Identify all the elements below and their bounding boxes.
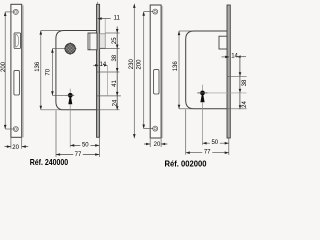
svg-text:38: 38 bbox=[112, 54, 118, 61]
right dim column anchor y48.6 bbox=[100, 48, 120, 50]
keyhole axis line bbox=[69, 89, 71, 148]
deadbolt cutout on faceplate (left plate) bbox=[14, 70, 20, 95]
dim 136 line (left) bbox=[40, 31, 42, 110]
body top extension to 136 dim bbox=[41, 30, 63, 32]
keyhole extension line (70 dim bottom) bbox=[52, 94, 66, 96]
right dim column anchor y72 bbox=[97, 71, 119, 73]
svg-text:11: 11 bbox=[114, 16, 121, 22]
svg-text:200: 200 bbox=[1, 61, 7, 72]
follower hub (handle spindle) bbox=[65, 43, 75, 53]
svg-text:50: 50 bbox=[82, 142, 89, 148]
forend side strip (left lock) bbox=[97, 4, 100, 137]
keyhole crosshair bbox=[67, 94, 75, 96]
body left lower extension (right 77) bbox=[185, 110, 187, 155]
dim 14 (bolt throw, right lock) bbox=[222, 56, 229, 58]
deadbolt box in case (right lock) bbox=[219, 36, 227, 49]
right dim column anchor y95.9 bbox=[97, 95, 121, 97]
top fixing screw (left plate) bbox=[13, 9, 18, 14]
svg-text:Réf. 240000: Réf. 240000 bbox=[30, 158, 69, 167]
faceplate front view (right lock) bbox=[150, 5, 161, 138]
follower hub extension line bbox=[52, 48, 65, 50]
svg-text:20: 20 bbox=[12, 145, 19, 151]
keyhole (left lock) bbox=[68, 93, 73, 98]
keyhole crosshair (right) bbox=[197, 92, 207, 94]
dim 20 (plate width, right lock) bbox=[150, 139, 161, 147]
svg-text:41: 41 bbox=[112, 80, 118, 87]
keyhole axis line (right) bbox=[202, 85, 204, 145]
dim 50 (backset, left lock) bbox=[70, 144, 99, 146]
dim 70 line (left) bbox=[51, 49, 53, 96]
forend lower extension (right 50/77) bbox=[228, 139, 230, 156]
latch bolt face inside cutout bbox=[15, 34, 17, 47]
dim 20 (plate width, left lock) bbox=[11, 138, 22, 149]
dim 200 extension bottom (left) bbox=[5, 128, 13, 130]
lock body outline (left lock) bbox=[56, 31, 97, 110]
svg-text:24: 24 bbox=[242, 101, 247, 108]
right dim column line (right lock) bbox=[239, 57, 241, 110]
dim 200 line (left) bbox=[4, 12, 6, 129]
dim 136 line (right) bbox=[178, 31, 180, 109]
svg-text:20: 20 bbox=[154, 142, 161, 148]
right dim column anchor y109.8 bbox=[97, 109, 120, 111]
latch cutout on faceplate (left plate) bbox=[14, 33, 20, 49]
latch tip extension line bbox=[104, 19, 106, 34]
dim 200 line (right) bbox=[143, 12, 145, 129]
svg-text:77: 77 bbox=[204, 149, 211, 155]
svg-text:Réf. 002000: Réf. 002000 bbox=[165, 160, 207, 169]
svg-text:200: 200 bbox=[137, 59, 143, 70]
body left lower extension (77 dim left side) bbox=[55, 111, 57, 158]
svg-text:25: 25 bbox=[112, 37, 118, 44]
dim 77 (case depth, left lock) bbox=[56, 154, 99, 156]
body bottom extension to 136 dim bbox=[41, 109, 63, 111]
dim 230 line (right) bbox=[133, 4, 135, 138]
latch tip protruding through forend bbox=[100, 34, 106, 48]
svg-text:136: 136 bbox=[35, 61, 41, 72]
svg-text:24: 24 bbox=[112, 99, 118, 106]
dim 77 (right lock) bbox=[186, 152, 229, 154]
body bottom extension to 136 dim (right) bbox=[179, 108, 192, 110]
dim 200 extension top (left) bbox=[5, 11, 13, 13]
bottom fixing screw (left plate) bbox=[13, 127, 18, 132]
anchor keyhole level (right lock) bbox=[208, 92, 247, 94]
lock body outline (right lock) bbox=[186, 31, 227, 109]
right dim column line bbox=[116, 27, 118, 110]
top fixing screw (right plate) bbox=[153, 9, 158, 14]
body top extension to 136 dim (right) bbox=[179, 30, 192, 32]
forend lower extension (50/77 dim right side) bbox=[98, 138, 100, 157]
deadbolt cutout (right plate) bbox=[154, 70, 159, 94]
faceplate front view (left lock) bbox=[11, 4, 22, 137]
dim 50 (right lock) bbox=[203, 142, 229, 144]
forend side strip (right lock) bbox=[227, 5, 230, 138]
anchor body bottom ext (right lock) bbox=[227, 108, 247, 110]
right dim column anchor y33 bbox=[105, 32, 119, 34]
keyhole (right lock) bbox=[200, 91, 205, 96]
forend back extension above plate bbox=[96, 2, 98, 5]
anchor y76.3 (right lock) bbox=[227, 75, 247, 77]
svg-text:70: 70 bbox=[46, 68, 52, 75]
deadbolt thrown extension bbox=[107, 65, 109, 96]
svg-text:136: 136 bbox=[173, 61, 179, 72]
latch bolt box in case (left lock) bbox=[88, 33, 97, 50]
faceplate shadow (right lock) bbox=[161, 6, 163, 138]
svg-text:230: 230 bbox=[129, 59, 135, 70]
dim 11 (latch protrusion) bbox=[98, 18, 111, 20]
dim 200 extensions (right) bbox=[144, 12, 153, 129]
svg-text:38: 38 bbox=[242, 79, 247, 86]
svg-text:77: 77 bbox=[75, 152, 82, 158]
svg-text:50: 50 bbox=[211, 140, 218, 146]
faceplate shadow (left lock) bbox=[22, 5, 24, 137]
bottom fixing screw (right plate) bbox=[153, 126, 158, 131]
